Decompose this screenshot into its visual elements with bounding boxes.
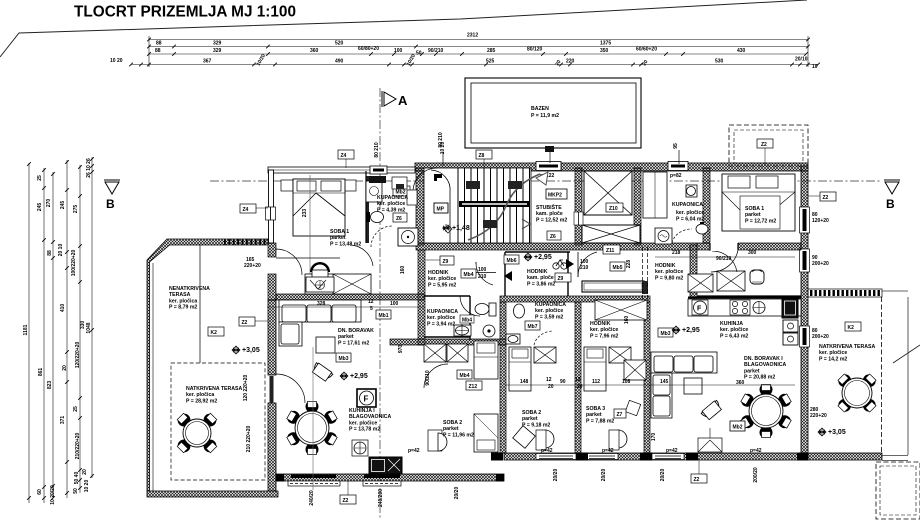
- desk+chair soba2: [428, 430, 442, 451]
- sink right: [753, 302, 765, 314]
- svg-text:60: 60: [37, 489, 43, 495]
- svg-text:P = 5,95 m2: P = 5,95 m2: [428, 282, 456, 288]
- svg-text:490: 490: [335, 59, 344, 65]
- svg-text:200+20: 200+20: [812, 334, 829, 340]
- svg-text:218: 218: [672, 250, 681, 256]
- svg-text:Mb3: Mb3: [339, 356, 349, 362]
- svg-text:SOBA 1: SOBA 1: [745, 206, 764, 212]
- svg-text:parket: parket: [338, 334, 354, 340]
- svg-text:210: 210: [478, 274, 487, 280]
- interior walls: [416, 168, 424, 245]
- svg-text:Z8: Z8: [479, 153, 485, 159]
- wardrobe soba1 left + desk: [333, 274, 371, 294]
- doors (arcs): [276, 168, 737, 403]
- svg-text:HODNIK: HODNIK: [655, 263, 676, 269]
- svg-text:20: 20: [82, 469, 88, 475]
- svg-text:B: B: [106, 197, 115, 211]
- svg-text:P = 14,2 m2: P = 14,2 m2: [819, 356, 847, 362]
- svg-text:245: 245: [37, 203, 43, 212]
- svg-text:Z2: Z2: [694, 477, 700, 483]
- svg-text:ker. pločice: ker. pločice: [428, 276, 456, 282]
- svg-text:P = 13,78 m2: P = 13,78 m2: [349, 427, 380, 433]
- door arc hodnik-mid: [577, 252, 579, 277]
- svg-text:Z9: Z9: [558, 276, 564, 282]
- svg-text:20/10: 20/10: [795, 57, 808, 63]
- exterior wall left upper: [269, 170, 274, 243]
- svg-text:BLAGOVAONICA: BLAGOVAONICA: [349, 414, 392, 420]
- svg-text:Mb1: Mb1: [379, 313, 389, 319]
- svg-text:220: 220: [566, 59, 575, 65]
- svg-text:HODNIK: HODNIK: [527, 269, 548, 275]
- svg-text:160: 160: [624, 316, 630, 325]
- svg-text:80/120: 80/120: [527, 47, 543, 53]
- svg-text:120 220+20: 120 220+20: [243, 375, 249, 402]
- svg-text:SOBA 2: SOBA 2: [443, 420, 462, 426]
- site boundary line: [0, 0, 807, 57]
- svg-text:parket: parket: [586, 412, 602, 418]
- svg-text:Z6: Z6: [550, 234, 556, 240]
- svg-text:170: 170: [651, 433, 657, 442]
- coffee table left: [316, 337, 335, 353]
- svg-text:371: 371: [60, 416, 66, 425]
- svg-text:Z2: Z2: [242, 320, 248, 326]
- svg-text:50: 50: [416, 51, 422, 57]
- svg-text:ker. pločice: ker. pločice: [349, 420, 377, 426]
- svg-text:210: 210: [580, 265, 589, 271]
- svg-text:25: 25: [37, 175, 43, 181]
- svg-text:K2: K2: [848, 325, 855, 331]
- right terrace dashed edge: [881, 297, 883, 453]
- svg-text:P = 11,96 m2: P = 11,96 m2: [443, 432, 474, 438]
- left wall door segments near terrace top: [268, 243, 276, 257]
- svg-text:NATKRIVENA TERASA: NATKRIVENA TERASA: [819, 344, 875, 350]
- roof overhang line terrace: [199, 245, 201, 363]
- svg-text:285: 285: [487, 48, 496, 54]
- Z9 box hodnik-left: [440, 256, 454, 265]
- svg-text:Mb6: Mb6: [507, 258, 517, 264]
- centerline soba1: [309, 175, 311, 294]
- svg-text:ker. pločice: ker. pločice: [720, 327, 748, 333]
- bed soba2: [474, 341, 498, 452]
- entrance mat right unit: [698, 438, 722, 452]
- exterior wall top: [415, 163, 808, 171]
- svg-text:NENATKRIVENA: NENATKRIVENA: [169, 286, 210, 292]
- svg-text:861: 861: [38, 368, 44, 377]
- svg-text:P = 17,61 m2: P = 17,61 m2: [338, 340, 369, 346]
- svg-text:Z6: Z6: [396, 216, 402, 222]
- svg-text:275: 275: [73, 205, 79, 214]
- svg-text:20/20: 20/20: [660, 469, 666, 482]
- section marker B right: [884, 180, 900, 194]
- svg-text:10: 10: [812, 64, 818, 70]
- svg-text:ker. pločice: ker. pločice: [427, 315, 455, 321]
- svg-text:ker. pločice: ker. pločice: [535, 308, 563, 314]
- washing machine mid: [655, 228, 672, 244]
- svg-text:parket: parket: [744, 368, 760, 374]
- wall between terrace and rooms: [268, 300, 276, 375]
- svg-text:228: 228: [626, 260, 632, 269]
- svg-text:100: 100: [394, 48, 403, 54]
- svg-text:P = 12,72 m2: P = 12,72 m2: [745, 218, 776, 224]
- svg-text:ker. pločice: ker. pločice: [590, 327, 618, 333]
- svg-text:20: 20: [642, 59, 650, 67]
- svg-text:240/200: 240/200: [378, 489, 384, 507]
- svg-text:10/20: 10/20: [256, 53, 268, 67]
- svg-text:P = 11,9 m2: P = 11,9 m2: [531, 113, 559, 119]
- bottom wall kitchen section: [276, 474, 504, 481]
- svg-text:DN. BORAVAK I: DN. BORAVAK I: [744, 356, 783, 362]
- closet hodnik mid (bench dark): [582, 281, 644, 292]
- svg-text:90: 90: [560, 379, 566, 385]
- svg-text:KUHINJA: KUHINJA: [720, 321, 743, 327]
- svg-text:P = 28,92 m2: P = 28,92 m2: [186, 398, 217, 404]
- interior dim strings: [267, 257, 795, 385]
- svg-text:233: 233: [302, 209, 308, 218]
- svg-text:120/220+20: 120/220+20: [75, 342, 81, 369]
- svg-text:KUPAONICA: KUPAONICA: [377, 195, 408, 201]
- svg-text:80 210: 80 210: [438, 132, 444, 148]
- svg-text:parket: parket: [745, 212, 761, 218]
- sofa L left unit: [279, 300, 361, 346]
- svg-text:88: 88: [47, 250, 53, 256]
- closets kitchen right wall: [688, 274, 713, 292]
- wall soba1-right bottom: [697, 243, 801, 250]
- soba2-2 bed: [509, 347, 531, 391]
- svg-text:25: 25: [73, 406, 79, 412]
- svg-text:10 20/20: 10 20/20: [50, 485, 56, 505]
- svg-text:MP: MP: [437, 206, 445, 212]
- svg-text:P = 6,43 m2: P = 6,43 m2: [720, 333, 748, 339]
- svg-text:BAZEN: BAZEN: [531, 106, 549, 112]
- svg-text:80 210: 80 210: [374, 142, 380, 158]
- svg-text:kam. ploče: kam. ploče: [536, 211, 563, 217]
- svg-text:360: 360: [310, 48, 319, 54]
- window markers top wall: [536, 162, 561, 171]
- round table right terrace: [837, 373, 878, 414]
- svg-text:60/60+20: 60/60+20: [636, 47, 657, 53]
- svg-text:328: 328: [317, 301, 326, 307]
- shaft Z11: [582, 225, 640, 243]
- svg-text:20: 20: [555, 59, 563, 67]
- svg-text:Z2: Z2: [343, 498, 349, 504]
- svg-text:Mb4: Mb4: [464, 272, 474, 278]
- stairs: [424, 168, 531, 243]
- boiler F left: [357, 389, 376, 407]
- svg-text:1048: 1048: [86, 322, 92, 333]
- svg-text:ker. pločice: ker. pločice: [819, 350, 847, 356]
- svg-text:100/220+20: 100/220+20: [71, 250, 77, 277]
- svg-text:525: 525: [486, 59, 495, 65]
- svg-text:Z4: Z4: [243, 207, 249, 213]
- svg-text:Mb3: Mb3: [661, 331, 671, 337]
- svg-text:148: 148: [520, 379, 529, 385]
- svg-text:200/20: 200/20: [753, 467, 759, 483]
- level marks: [442, 224, 470, 233]
- svg-text:210/220+20: 210/220+20: [75, 433, 81, 460]
- closet soba3 right: [624, 360, 646, 380]
- closet X hodnik bottom: [595, 300, 647, 320]
- bottom wall bedrooms section: [504, 453, 808, 460]
- p=42 labels bottom: [408, 448, 762, 454]
- svg-text:270: 270: [46, 199, 52, 208]
- svg-text:P = 7,96 m2: P = 7,96 m2: [590, 333, 618, 339]
- svg-text:12: 12: [575, 377, 581, 383]
- stove right: [730, 300, 750, 315]
- kitchen left dark counter: [369, 457, 402, 474]
- svg-text:350: 350: [600, 48, 609, 54]
- svg-text:90/210: 90/210: [425, 370, 431, 386]
- balcony dashed Z2 top right: [729, 125, 808, 166]
- chair soba2-2: [513, 426, 536, 449]
- svg-text:50 40: 50 40: [74, 472, 80, 485]
- svg-text:P = 6,04 m2: P = 6,04 m2: [676, 216, 704, 222]
- svg-text:520: 520: [335, 41, 344, 47]
- svg-text:10 20: 10 20: [84, 480, 90, 493]
- svg-text:A: A: [398, 93, 408, 108]
- thin partitions: [366, 176, 370, 243]
- right wall third window: [800, 326, 810, 347]
- svg-text:95: 95: [673, 143, 679, 149]
- section marker A: [382, 91, 396, 107]
- svg-text:26 10 26: 26 10 26: [86, 158, 92, 178]
- thin centerline through dining room: [312, 347, 314, 490]
- svg-text:100: 100: [478, 267, 487, 273]
- svg-text:20: 20: [577, 384, 583, 390]
- svg-text:parket: parket: [443, 426, 459, 432]
- svg-text:100: 100: [390, 301, 399, 307]
- coffee table right: [684, 378, 702, 394]
- svg-text:20: 20: [62, 365, 68, 371]
- svg-text:SOBA 2: SOBA 2: [522, 410, 541, 416]
- svg-text:P = 9,18 m2: P = 9,18 m2: [522, 422, 550, 428]
- section marker B left: [104, 180, 120, 194]
- svg-text:Z7: Z7: [617, 412, 623, 418]
- svg-text:220+20: 220+20: [244, 263, 261, 269]
- svg-text:P = 7,88 m2: P = 7,88 m2: [586, 418, 614, 424]
- svg-text:2312: 2312: [467, 33, 478, 39]
- svg-text:Z9: Z9: [443, 259, 449, 265]
- svg-text:p=42: p=42: [750, 448, 762, 454]
- svg-text:P = 9,80 m2: P = 9,80 m2: [655, 275, 683, 281]
- fridge black right: [782, 299, 798, 318]
- svg-text:parket: parket: [330, 235, 346, 241]
- svg-text:530: 530: [715, 59, 724, 65]
- svg-text:970: 970: [398, 345, 404, 354]
- bath mid-2 fixtures: [506, 304, 525, 344]
- svg-text:112: 112: [592, 379, 600, 385]
- svg-text:p=42: p=42: [602, 448, 614, 454]
- soba3 bed: [584, 347, 606, 391]
- svg-text:20/20: 20/20: [601, 469, 607, 482]
- svg-text:Z11: Z11: [606, 248, 615, 254]
- svg-text:90/210: 90/210: [716, 256, 732, 262]
- svg-text:20 10: 20 10: [58, 244, 64, 257]
- svg-text:F: F: [697, 306, 702, 313]
- armchair left unit: [311, 362, 334, 382]
- svg-text:120+20: 120+20: [812, 218, 829, 224]
- boxed labels: [240, 204, 256, 213]
- svg-text:20/20: 20/20: [454, 487, 460, 500]
- svg-text:145: 145: [660, 379, 669, 385]
- window left wall soba1: [266, 207, 276, 220]
- svg-text:245: 245: [60, 201, 66, 210]
- right terrace top parapet: [808, 289, 882, 297]
- svg-text:KUPAONICA: KUPAONICA: [535, 302, 566, 308]
- svg-text:88: 88: [156, 41, 162, 47]
- kitchen left unit: sink circle: [352, 440, 368, 456]
- svg-text:P = 20,88 m2: P = 20,88 m2: [744, 375, 775, 381]
- svg-text:ker. pločice: ker. pločice: [377, 201, 405, 207]
- svg-text:Z2: Z2: [761, 142, 767, 148]
- left dimension chain: [29, 157, 92, 503]
- svg-text:KUPAONICA: KUPAONICA: [427, 309, 458, 315]
- svg-text:Z4: Z4: [341, 153, 347, 159]
- desk chair soba1 left: [310, 262, 330, 272]
- svg-text:367: 367: [203, 59, 212, 65]
- svg-text:BLAGOVAONICA: BLAGOVAONICA: [744, 362, 787, 368]
- svg-text:Mb5: Mb5: [613, 265, 623, 271]
- top wall fixture blob: [369, 176, 386, 183]
- svg-text:Mb7: Mb7: [528, 324, 538, 330]
- dashed overhang left terrace: [171, 363, 265, 480]
- svg-text:ker. pločice: ker. pločice: [655, 269, 683, 275]
- pilaster columns bottom wall: [276, 453, 808, 482]
- svg-text:P = 3,59 m2: P = 3,59 m2: [535, 314, 563, 320]
- svg-text:HODNIK: HODNIK: [428, 270, 449, 276]
- svg-text:430: 430: [737, 48, 746, 54]
- svg-text:MKP2: MKP2: [548, 192, 562, 198]
- top dimension chain: [131, 36, 818, 67]
- svg-text:12: 12: [546, 377, 552, 383]
- armchair right unit: [701, 400, 723, 421]
- bath right KUPAONICA fixtures: [643, 172, 708, 234]
- svg-text:329: 329: [213, 48, 222, 54]
- svg-text:P = 3,94 m2: P = 3,94 m2: [427, 321, 455, 327]
- svg-text:SOBA 3: SOBA 3: [586, 406, 605, 412]
- svg-text:220+20: 220+20: [810, 413, 827, 419]
- svg-text:200+20: 200+20: [812, 261, 829, 267]
- svg-text:20: 20: [548, 384, 554, 390]
- svg-text:F: F: [364, 395, 369, 404]
- round table kitchen-dining left: [286, 402, 338, 455]
- svg-text:300: 300: [748, 250, 757, 256]
- svg-text:90/210: 90/210: [428, 48, 444, 54]
- svg-text:Mb4: Mb4: [460, 373, 470, 379]
- svg-text:parket: parket: [522, 416, 538, 422]
- svg-text:SOBA 1: SOBA 1: [330, 229, 349, 235]
- svg-text:ker. pločica: ker. pločica: [169, 298, 197, 304]
- svg-text:B: B: [886, 197, 895, 211]
- svg-text:p=82: p=82: [670, 173, 682, 179]
- svg-text:P = 3,86 m2: P = 3,86 m2: [527, 281, 555, 287]
- svg-text:1181: 1181: [23, 324, 29, 335]
- svg-text:p=42: p=42: [666, 448, 678, 454]
- svg-text:Z2: Z2: [823, 195, 829, 201]
- round table dining right: [740, 385, 792, 438]
- svg-text:TERASA: TERASA: [169, 292, 191, 298]
- pool BAZEN: [465, 78, 641, 148]
- svg-text:5: 5: [370, 306, 373, 312]
- dashed rect bottom right: [876, 462, 920, 519]
- elevator shaft Z10: [584, 171, 632, 215]
- svg-text:410: 410: [60, 304, 66, 313]
- bath mid KUPAONICA fixtures (left unit): [454, 303, 496, 337]
- shower arc bath2: [534, 331, 553, 345]
- svg-text:+2,95: +2,95: [534, 254, 552, 261]
- pool drain leader: [549, 148, 551, 163]
- svg-text:NATKRIVENA TERASA: NATKRIVENA TERASA: [186, 386, 242, 392]
- terrace right solid boundary: [907, 297, 909, 455]
- svg-text:+3,05: +3,05: [828, 429, 846, 436]
- svg-text:HODNIK: HODNIK: [590, 321, 611, 327]
- kitchen right counter row: [688, 297, 801, 299]
- svg-text:50: 50: [73, 488, 79, 494]
- svg-text:P = 8,79 m2: P = 8,79 m2: [169, 305, 197, 311]
- svg-text:+3,05: +3,05: [242, 347, 260, 354]
- bath fixtures top-left KUPAONICA: [366, 181, 384, 223]
- svg-text:108: 108: [622, 379, 631, 385]
- site boundary right diagonal: [893, 345, 920, 363]
- svg-text:ker. pločice: ker. pločice: [676, 210, 704, 216]
- bottom wall right terrace: [808, 453, 882, 460]
- bed soba1 right: [722, 174, 795, 231]
- terrace parapet top + chamfer + left + bottom: [147, 239, 268, 491]
- svg-text:+2,95: +2,95: [350, 373, 368, 380]
- svg-text:P = 13,48 m2: P = 13,48 m2: [330, 241, 361, 247]
- svg-text:p=42: p=42: [408, 448, 420, 454]
- sofa L right unit: [651, 352, 717, 418]
- svg-text:20/20: 20/20: [553, 469, 559, 482]
- svg-text:88: 88: [155, 48, 161, 54]
- soba2 closet: [424, 344, 446, 362]
- svg-text:60/80+20: 60/80+20: [358, 46, 379, 52]
- svg-text:160: 160: [400, 266, 406, 275]
- boiler F right: [692, 300, 708, 315]
- svg-text:ker. pločica: ker. pločica: [186, 392, 214, 398]
- chair soba3: [618, 430, 627, 448]
- entry arrows + bicycle: [504, 271, 512, 281]
- bed soba1 left: [281, 179, 356, 236]
- svg-text:Mb4: Mb4: [462, 318, 472, 324]
- svg-text:STUBIŠTE: STUBIŠTE: [536, 203, 562, 211]
- svg-text:329: 329: [213, 41, 222, 47]
- svg-text:Mb2: Mb2: [733, 425, 743, 431]
- chair kitchen right: [750, 270, 764, 284]
- stair wall window: [574, 212, 583, 225]
- svg-text:210 220+20: 210 220+20: [246, 426, 252, 453]
- svg-text:TLOCRT PRIZEMLJA MJ 1:100: TLOCRT PRIZEMLJA MJ 1:100: [74, 4, 296, 21]
- svg-text:+1,48: +1,48: [452, 225, 470, 232]
- section line B-B: [210, 180, 880, 182]
- svg-text:KUPAONICA: KUPAONICA: [672, 202, 703, 208]
- svg-text:p=42: p=42: [541, 448, 553, 454]
- door hodnik-mid left: [476, 262, 493, 285]
- door leaf terrace-dining: [270, 376, 274, 403]
- dark units below fridge: [783, 320, 798, 332]
- svg-text:10 20: 10 20: [110, 58, 123, 64]
- exterior wall right: [801, 166, 808, 456]
- svg-text:KUHINJA I: KUHINJA I: [349, 408, 375, 414]
- svg-text:K2: K2: [211, 330, 218, 336]
- round table terrace left: [176, 412, 218, 454]
- svg-text:12: 12: [368, 299, 374, 305]
- svg-text:Z12: Z12: [469, 384, 478, 390]
- svg-text:823: 823: [47, 381, 53, 390]
- svg-text:240/20: 240/20: [309, 490, 315, 506]
- svg-text:P = 4,39 m2: P = 4,39 m2: [377, 207, 405, 213]
- svg-text:P = 12,52 m2: P = 12,52 m2: [536, 217, 567, 223]
- svg-text:360: 360: [736, 380, 745, 386]
